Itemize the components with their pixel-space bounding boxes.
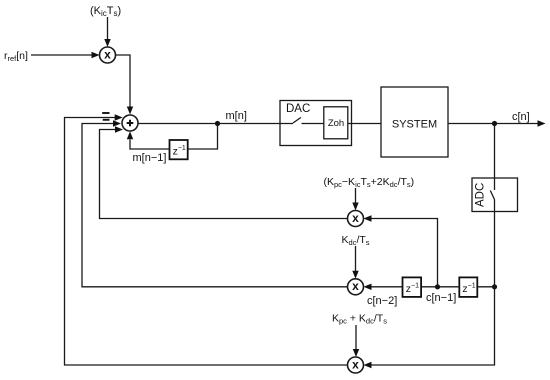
- wire adder to DAC (m[n] line): [138, 123, 293, 125]
- svg-text:m[n]: m[n]: [226, 110, 247, 122]
- wire SYSTEM to c[n] output: [448, 120, 546, 126]
- label r_ref[n]: [4, 50, 28, 63]
- delay z^-1 (c[n-1] to c[n-2]): [403, 277, 422, 297]
- multiplier X1: [100, 47, 116, 63]
- ADC block: [472, 178, 518, 212]
- svg-text:x: x: [352, 357, 359, 371]
- node c[n]: [492, 121, 497, 126]
- svg-text:(KicTs): (KicTs): [90, 5, 121, 18]
- node after ADC: [492, 284, 497, 289]
- DAC switch: [293, 118, 324, 124]
- wire r_ref input: [31, 52, 100, 58]
- wire c[n-1] up to multiplier X2: [364, 215, 438, 286]
- wire coefficient to X2: [352, 188, 358, 211]
- SYSTEM block: [381, 87, 448, 157]
- wire X1 output to adder: [116, 55, 134, 115]
- svg-text:Zoh: Zoh: [328, 118, 344, 129]
- svg-text:c[n]: c[n]: [512, 111, 530, 123]
- delay z^-1 (c[n] to c[n-1]): [459, 277, 477, 297]
- wire c[n] down to ADC: [494, 124, 496, 191]
- svg-text:x: x: [352, 211, 359, 225]
- svg-text:Kpc + Kdc/Ts: Kpc + Kdc/Ts: [332, 313, 387, 326]
- multiplier X2: [348, 211, 364, 227]
- wire B3 to multiplier X3: [364, 284, 403, 290]
- svg-text:SYSTEM: SYSTEM: [392, 118, 437, 130]
- wire c[n] column down to X4: [364, 287, 495, 368]
- wire m[n] node down to delay: [188, 124, 218, 150]
- wire c[n-1] node to delay B3: [421, 286, 437, 288]
- wire node to delay B2: [477, 286, 494, 288]
- wire Kdc/Ts to X3: [352, 246, 358, 279]
- label (KicTs): [90, 5, 121, 18]
- wire X2 output to adder (inner loop): [100, 126, 348, 218]
- node c[n-1]: [435, 284, 440, 289]
- wire Kpc+Kdc/Ts to X4: [353, 325, 359, 357]
- wire X3 output to adder (middle loop): [82, 120, 348, 286]
- svg-text:rref[n]: rref[n]: [4, 50, 28, 63]
- minus sign 2: [103, 119, 110, 121]
- svg-text:c[n−1]: c[n−1]: [426, 292, 456, 304]
- delay z^-1 (m feedback): [170, 140, 188, 159]
- node m[n]: [215, 121, 220, 126]
- wire Zoh to SYSTEM: [348, 123, 381, 125]
- wire B2 to node c[n-1]: [438, 286, 460, 288]
- svg-text:c[n−2]: c[n−2]: [367, 295, 397, 307]
- DAC block: [280, 101, 352, 146]
- minus sign 1: [102, 112, 109, 114]
- svg-text:ADC: ADC: [475, 183, 487, 207]
- svg-text:(Kpc−KicTs+2Kdc/Ts): (Kpc−KicTs+2Kdc/Ts): [324, 176, 415, 189]
- wire KicTs to multiplier X1: [104, 17, 110, 47]
- wire delay to adder bottom: [127, 131, 170, 149]
- multiplier X4: [348, 357, 364, 373]
- Zoh block: [324, 107, 348, 139]
- multiplier X3: [348, 279, 364, 295]
- adder: [122, 115, 138, 131]
- svg-text:DAC: DAC: [286, 103, 310, 115]
- ADC switch: [490, 191, 494, 200]
- svg-text:Kdc/Ts: Kdc/Ts: [342, 234, 370, 247]
- svg-text:x: x: [352, 279, 359, 293]
- wire ADC down to feedback chain: [494, 200, 496, 287]
- svg-text:m[n−1]: m[n−1]: [133, 152, 167, 164]
- wire X4 output to adder (outer loop): [65, 114, 348, 365]
- svg-text:x: x: [104, 47, 111, 61]
